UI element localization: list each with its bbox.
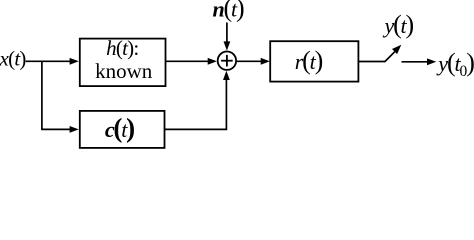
svg-text:r(t): r(t) xyxy=(295,46,323,75)
svg-text:c(t): c(t) xyxy=(105,113,134,143)
switch arm (sampler) xyxy=(385,52,395,62)
svg-text:y(t0): y(t0) xyxy=(436,48,474,80)
arrowhead into h(t) box xyxy=(70,58,79,65)
arrowhead into r(t) box xyxy=(261,58,270,65)
arrowhead into summer bottom xyxy=(223,71,230,80)
arrowhead into summer top xyxy=(224,41,231,50)
svg-text:x(t): x(t) xyxy=(0,46,26,70)
arrowhead into c(t) box xyxy=(70,126,79,133)
svg-text:h(t):: h(t): xyxy=(106,36,138,60)
wire output arrow to y(t0) xyxy=(402,61,428,63)
arrowhead at y(t0) xyxy=(427,58,436,65)
svg-text:y(t): y(t) xyxy=(383,10,414,39)
arrowhead into summer left xyxy=(208,58,217,65)
block h(t): known xyxy=(80,39,166,87)
svg-text:n(t): n(t) xyxy=(213,0,244,23)
wire c(t) box to summer bottom xyxy=(165,79,227,130)
node branch junction wire down xyxy=(41,61,43,129)
summing junction xyxy=(218,52,236,70)
block c(t) xyxy=(80,111,165,148)
svg-text:known: known xyxy=(95,59,153,83)
wire summer to r(t) box xyxy=(237,60,262,62)
wire from x(t) to h(t) box xyxy=(26,60,71,62)
wire r(t) box to switch xyxy=(359,61,385,63)
block r(t) xyxy=(270,41,358,81)
wire h(t) box to summer xyxy=(166,60,208,62)
wire branch to c(t) box xyxy=(41,128,70,130)
arrowhead of switch arm xyxy=(392,45,401,54)
wire n(t) into summer top xyxy=(226,23,228,43)
